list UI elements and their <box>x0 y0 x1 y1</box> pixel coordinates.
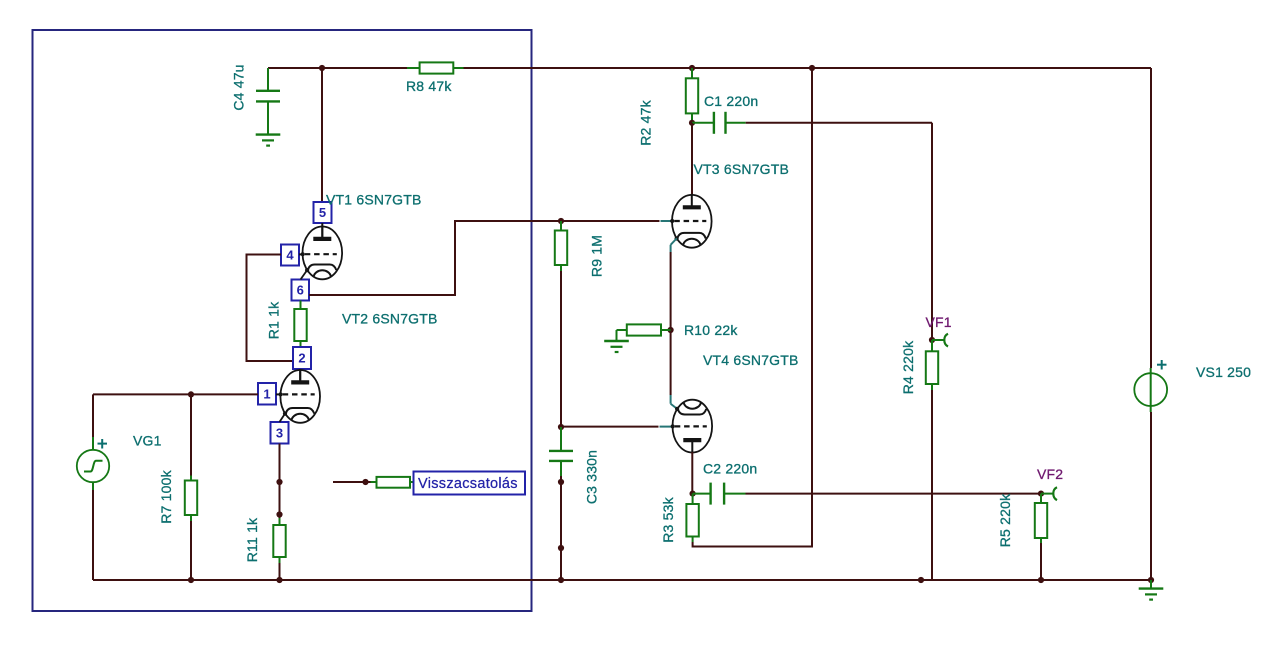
wire VT1 cathode lead to pin6 <box>301 270 308 279</box>
wire C4 top lead <box>267 68 269 90</box>
svg-text:VT2 6SN7GTB: VT2 6SN7GTB <box>342 311 438 327</box>
resistor feedback body <box>377 477 411 488</box>
svg-text:6: 6 <box>297 283 304 298</box>
wire VG1 top lead <box>92 394 94 437</box>
ground main <box>1139 589 1164 600</box>
wire R7 bottom stub <box>190 515 192 521</box>
resistor R10 <box>627 324 661 335</box>
resistor R3 <box>686 504 698 537</box>
wire C3 bottom stub <box>560 461 562 476</box>
svg-text:R8 47k: R8 47k <box>406 78 452 94</box>
junction R5 bottom <box>1038 577 1044 583</box>
svg-text:Visszacsatolás: Visszacsatolás <box>418 476 518 492</box>
svg-text:VS1 250: VS1 250 <box>1196 364 1251 380</box>
wire R7 top lead <box>190 394 192 475</box>
capacitor C2 left stub <box>693 493 711 495</box>
label R1 1k <box>266 301 282 339</box>
wire R1 to pin2 stub <box>300 341 302 347</box>
capacitor C1 left stub <box>692 122 714 124</box>
wire VT1 plate riser <box>321 68 323 202</box>
label box Visszacsatolás <box>414 472 526 495</box>
resistor R9 <box>555 231 567 266</box>
junction top rail riser <box>809 65 815 71</box>
junction VT3 anode node <box>689 120 695 126</box>
capacitor C1 right stub <box>726 122 746 124</box>
wire pin3 to R11 <box>279 444 281 520</box>
svg-text:VF1: VF1 <box>926 314 952 330</box>
tube triode U-VT1 upper half <box>301 225 343 279</box>
wire VT3 plate lead <box>691 123 693 207</box>
wire VT3 cathode to R10 node <box>670 252 672 330</box>
wire R5 bottom lead <box>1040 543 1042 580</box>
svg-text:2: 2 <box>298 351 305 366</box>
wire R2 bottom stub <box>691 113 693 122</box>
svg-text:R1 1k: R1 1k <box>266 301 282 339</box>
label R8 47k <box>406 78 452 94</box>
wire bottom ground rail <box>93 579 1151 581</box>
tube triode U-VT4 flipped <box>671 400 712 454</box>
pin 6 box VT1 cathode <box>292 280 310 301</box>
wire pin6 to VT3 grid <box>309 221 660 295</box>
junction C3 wire lower <box>558 545 564 551</box>
junction R11 top node <box>276 511 282 517</box>
source VG1 waveform <box>84 461 103 472</box>
junction C3 bottom rail <box>558 577 564 583</box>
source VS1 plus sign <box>1157 360 1167 370</box>
label C3 330n <box>584 450 600 504</box>
wire VT3 cathode teal stub <box>671 238 677 252</box>
label C4 47u <box>231 64 247 110</box>
label VS1 250 <box>1196 364 1251 380</box>
capacitor C2 right stub <box>724 493 745 495</box>
wire VS1 top lead <box>1150 68 1152 368</box>
svg-text:R2 47k: R2 47k <box>638 99 654 145</box>
junction VF2 node <box>1038 491 1044 497</box>
label R7 100k <box>158 469 174 523</box>
wire R3 bottom stub <box>692 537 694 543</box>
wire pin4 to pin2 link <box>247 255 294 362</box>
pin 2 box VT2 anode <box>293 347 311 369</box>
resistor R1 <box>294 309 306 341</box>
junction top rail to VT1 <box>319 65 325 71</box>
label VF2 <box>1037 466 1063 482</box>
label VF1 <box>926 314 952 330</box>
junction VF1 node <box>929 337 935 343</box>
wire VG1 top stub <box>92 437 94 450</box>
wire R10 node to VT4 <box>670 330 672 395</box>
wire R11 top stub <box>279 518 281 525</box>
wire C1 to VF1 column <box>746 122 932 124</box>
wire VS1 top stub <box>1150 368 1152 373</box>
source VG1 plus sign <box>98 439 108 449</box>
wire R3 top stub <box>692 494 694 504</box>
wire R4 top stub <box>931 340 933 351</box>
wire C3 to bottom rail <box>560 476 562 580</box>
wire R4 bottom lead <box>931 390 933 580</box>
wire R10 right stub <box>661 329 671 331</box>
wire C4 bottom lead <box>267 101 269 134</box>
resistor R2 <box>686 78 698 113</box>
resistor R11 <box>273 525 285 557</box>
svg-text:C2 220n: C2 220n <box>703 461 757 477</box>
wire VT2 cathode lead to pin3 <box>280 414 286 422</box>
junction R11 bottom <box>276 577 282 583</box>
svg-text:C3 330n: C3 330n <box>584 450 600 504</box>
resistor feedback stub left <box>371 481 377 483</box>
resistor feedback stub right <box>410 481 414 483</box>
label C2 220n <box>703 461 757 477</box>
wire R11 bottom lead <box>279 563 281 580</box>
pin 1 box VT2 grid <box>258 383 276 405</box>
wire pin4 grid stub <box>299 253 303 255</box>
source VS1 circle <box>1134 373 1167 406</box>
label R9 1M <box>589 235 605 277</box>
junction ground node <box>1148 577 1154 583</box>
wire R9 bottom stub <box>560 265 562 271</box>
wire R9 to C3 <box>560 271 562 427</box>
junction VT4 anode node <box>690 491 696 497</box>
label R11 1k <box>244 517 260 562</box>
wire VG1 to pin1 <box>93 393 258 395</box>
wire top B+ rail right segment <box>464 67 1152 69</box>
tube triode U-VT2 lower half <box>279 369 321 423</box>
junction R9 top <box>558 218 564 224</box>
wire pin1 grid stub <box>276 393 282 395</box>
junction R7 bottom <box>188 577 194 583</box>
wire VT1 plate lead from pin5 <box>321 223 323 240</box>
resistor R5 <box>1035 503 1047 538</box>
wire VT2 plate lead from pin2 <box>299 369 301 383</box>
wire R11 bottom stub <box>279 557 281 563</box>
svg-text:VT4 6SN7GTB: VT4 6SN7GTB <box>703 352 799 368</box>
wire R7 top stub <box>190 476 192 481</box>
svg-text:R3 53k: R3 53k <box>660 496 676 542</box>
wire C2 to VF2 <box>746 493 1042 495</box>
wire VG1 bottom stub <box>92 482 94 490</box>
wire VT4 grid horizontal <box>561 426 659 428</box>
wire R4 bottom stub <box>931 384 933 390</box>
svg-text:3: 3 <box>276 425 283 440</box>
junction R10 node <box>668 327 674 333</box>
wire R7 bottom lead <box>190 521 192 580</box>
label VG1 <box>133 433 162 449</box>
junction R9 bottom / VT4 grid node <box>558 424 564 430</box>
label VT1 6SN7GTB <box>326 192 422 208</box>
wire top B+ rail left segment <box>268 67 407 69</box>
source VG1 circle <box>77 450 109 482</box>
pin 5 box VT1 anode <box>314 202 332 223</box>
svg-text:R4 220k: R4 220k <box>900 340 916 394</box>
wire R2 top stub <box>691 68 693 78</box>
label R10 22k <box>684 322 738 338</box>
wire VF1 column vertical <box>931 123 933 340</box>
label C1 220n <box>704 93 758 109</box>
resistor R7 <box>185 481 197 516</box>
svg-text:R11 1k: R11 1k <box>244 517 260 562</box>
svg-text:C4 47u: C4 47u <box>231 64 247 110</box>
pin 3 box VT2 cathode <box>271 422 289 444</box>
wire VS1 bottom lead <box>1150 412 1152 580</box>
junction feedback wire <box>362 479 368 485</box>
wire VT4 anode lead <box>691 452 693 494</box>
tube triode U-VT3 <box>670 194 711 248</box>
wire R10 ground stub <box>617 330 627 341</box>
label VT4 6SN7GTB <box>703 352 799 368</box>
wire teal stub at VT4 grid <box>660 426 672 428</box>
junction C3 wire upper <box>558 479 564 485</box>
label R5 220k <box>997 493 1013 547</box>
ground C4 <box>256 135 281 146</box>
svg-text:R7 100k: R7 100k <box>158 469 174 523</box>
svg-text:R9 1M: R9 1M <box>589 235 605 277</box>
wire VT4 cathode teal stub <box>671 395 678 409</box>
outer schematic frame box <box>33 30 532 611</box>
svg-text:R5 220k: R5 220k <box>997 493 1013 547</box>
ground R10 <box>604 341 629 352</box>
resistor R4 <box>926 351 938 384</box>
label VT3 6SN7GTB <box>694 161 790 177</box>
wire R5 bottom stub <box>1040 538 1042 543</box>
wire pin6 to R1 stub <box>300 301 302 310</box>
label R4 220k <box>900 340 916 394</box>
svg-text:R10 22k: R10 22k <box>684 322 738 338</box>
wire VS1 bottom stub <box>1150 406 1152 412</box>
wire R9 top stub <box>560 221 562 231</box>
wire ground stub <box>1150 580 1152 588</box>
svg-text:1: 1 <box>263 386 270 401</box>
svg-text:4: 4 <box>286 248 294 263</box>
wire teal stub at VT3 grid <box>661 220 672 222</box>
wire VG1 bottom lead <box>92 490 94 580</box>
voltage pin VF2 <box>1041 487 1057 500</box>
wire R3 bottom to riser <box>693 68 812 547</box>
label R2 47k <box>638 99 654 145</box>
pin 4 box VT1 grid <box>281 245 299 266</box>
svg-text:VG1: VG1 <box>133 433 162 449</box>
wire R5 top stub <box>1040 494 1042 503</box>
svg-text:VT1 6SN7GTB: VT1 6SN7GTB <box>326 192 422 208</box>
wire feedback lead <box>333 481 371 483</box>
svg-text:VF2: VF2 <box>1037 466 1063 482</box>
junction bottom rail left of R4 <box>918 577 924 583</box>
svg-text:C1 220n: C1 220n <box>704 93 758 109</box>
voltage pin VF1 <box>932 334 948 347</box>
svg-text:VT3 6SN7GTB: VT3 6SN7GTB <box>694 161 790 177</box>
capacitor C4 <box>256 91 280 102</box>
label R3 53k <box>660 496 676 542</box>
label VT2 6SN7GTB <box>342 311 438 327</box>
junction R7 top <box>188 391 194 397</box>
wire C3 top stub <box>560 427 562 450</box>
junction R2 top <box>689 65 695 71</box>
capacitor C3 <box>549 451 573 461</box>
capacitor C2 <box>711 483 725 505</box>
junction feedback tap <box>276 479 282 485</box>
capacitor C1 <box>714 112 726 134</box>
resistor R8 <box>407 62 464 73</box>
